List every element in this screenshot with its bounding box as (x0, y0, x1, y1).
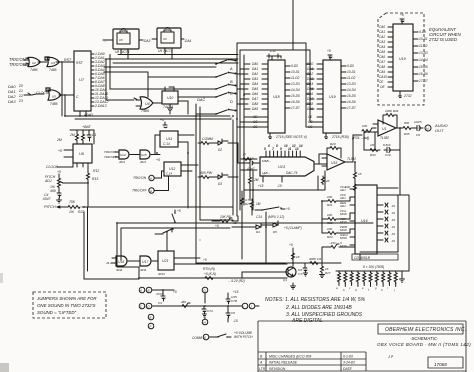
svg-text:.01: .01 (391, 225, 395, 229)
svg-text:14-D4: 14-D4 (419, 58, 428, 62)
label TRIG gates (104, 150, 117, 159)
svg-text:Σ0: Σ0 (18, 84, 23, 88)
svg-text:+5: +5 (203, 258, 207, 262)
svg-text:17-D7: 17-D7 (347, 106, 356, 110)
svg-text:2M: 2M (69, 133, 75, 137)
cap 6.8 (298, 263, 308, 276)
switch S2 (155, 209, 181, 234)
flip-flop U8 outer (113, 29, 139, 55)
wire U15 to U11 (151, 135, 160, 155)
svg-text:6.8pF: 6.8pF (383, 143, 391, 147)
svg-text:C9: C9 (416, 133, 420, 137)
note equivalent circuit (428, 27, 462, 42)
svg-text:Σ3: Σ3 (18, 99, 23, 103)
svg-text:U6: U6 (79, 151, 85, 156)
svg-text:C3: C3 (158, 301, 162, 305)
svg-text:CA5: CA5 (379, 50, 385, 54)
svg-text:DA8: DA8 (307, 102, 313, 106)
wire vertical pair mid (196, 104, 200, 220)
svg-text:TL082: TL082 (380, 136, 389, 140)
svg-text:R22: R22 (78, 210, 84, 214)
junction dots bus (235, 60, 237, 112)
wire left riser x110 (106, 55, 134, 101)
svg-text:+5: +5 (177, 209, 181, 213)
svg-text:MOD: MOD (340, 212, 347, 216)
svg-text:CA9: CA9 (379, 70, 385, 74)
wire top row y189 (242, 171, 325, 259)
wire 10k (212, 216, 238, 221)
svg-text:ADJ: ADJ (339, 196, 346, 200)
svg-text:10-D1: 10-D1 (347, 70, 356, 74)
wire vertical x266 (265, 212, 267, 263)
cap C9 out (413, 120, 423, 137)
svg-text:CLOCK: CLOCK (36, 91, 49, 95)
switch E (215, 109, 233, 121)
diode pair row2 (212, 173, 228, 186)
svg-text:400 PW: 400 PW (200, 171, 213, 175)
svg-text:17068: 17068 (434, 362, 447, 367)
svg-text:75K: 75K (69, 200, 76, 204)
wire U9 out (152, 38, 184, 40)
svg-text:OUT: OUT (435, 128, 444, 133)
pins U19 left (307, 62, 323, 129)
arrow pitch left (57, 206, 60, 208)
svg-text:Σ1: Σ1 (18, 89, 23, 93)
wire DAC to opamp (315, 154, 327, 164)
svg-text:R12: R12 (93, 169, 99, 173)
resistor col to U16 pin2 (322, 213, 350, 225)
cap under U10 (168, 104, 173, 114)
svg-text:OBERHEIM ELECTRONICS INC.: OBERHEIM ELECTRONICS INC. (385, 327, 466, 333)
connector E (148, 314, 154, 320)
switch A (215, 59, 233, 71)
svg-text:R13: R13 (92, 177, 98, 181)
capacitor top of U6 (87, 131, 96, 141)
svg-text:+5: +5 (400, 13, 404, 17)
svg-text:11: 11 (288, 147, 292, 151)
svg-text:7486: 7486 (30, 68, 38, 72)
wire right cluster (238, 163, 259, 215)
svg-text:U4: U4 (145, 102, 150, 106)
svg-text:11-D2: 11-D2 (347, 76, 356, 80)
svg-text:DA3: DA3 (8, 99, 16, 104)
svg-text:17-D7: 17-D7 (419, 79, 428, 83)
svg-text:CA7: CA7 (379, 60, 385, 64)
svg-text:.01: .01 (391, 218, 395, 222)
wire U2 out (38, 61, 47, 63)
wire long row2 (139, 277, 287, 279)
resistor 1M R33 (368, 143, 380, 157)
resistor R right2 (251, 199, 261, 210)
svg-text:R33: R33 (370, 153, 376, 157)
svg-text:NOTES: 1. ALL RESISTORS ARE 1: NOTES: 1. ALL RESISTORS ARE 1/4 W, 5% (265, 297, 366, 303)
feedback resistor opamp U15 (327, 142, 341, 158)
svg-text:+15: +15 (233, 290, 239, 294)
gate U16b (128, 256, 151, 272)
svg-text:3-24-83: 3-24-83 (343, 361, 355, 365)
svg-text:DAČ: DAČ (197, 97, 205, 102)
svg-text:A: A (139, 289, 142, 293)
svg-text:DA1: DA1 (252, 67, 258, 71)
svg-text:J P: J P (387, 355, 394, 359)
svg-text:10K R8: 10K R8 (220, 215, 231, 219)
svg-text:+5: +5 (58, 149, 62, 153)
svg-text:A: A (149, 177, 152, 181)
svg-text:TL082: TL082 (347, 157, 356, 161)
resistor R35 out (403, 121, 413, 136)
svg-text:9-D0: 9-D0 (291, 64, 298, 68)
resistor R22 pitch (68, 200, 84, 214)
connector pair C D (139, 303, 152, 309)
svg-text:DA8: DA8 (252, 102, 258, 106)
cap above U11 (160, 118, 167, 128)
block U21 (152, 251, 174, 276)
svg-text:300K 1%: 300K 1% (309, 257, 322, 261)
wire conn IJ (205, 293, 259, 322)
label DA0-DA3 column (8, 84, 23, 104)
wire bottom of U7 down (80, 111, 86, 116)
resistor row2 (198, 171, 213, 179)
svg-text:OBX VOICE BOARD - MW II (TOMS: OBX VOICE BOARD - MW II (TOMS 1&2) (377, 342, 471, 347)
svg-text:R23: R23 (327, 235, 333, 239)
svg-text:DATE: DATE (343, 367, 353, 371)
svg-text:CA1: CA1 (379, 30, 385, 34)
wire left vertical from U3 area down (62, 62, 65, 116)
opamp U15 (322, 154, 356, 170)
dashed equivalent box (378, 13, 424, 105)
svg-text:CA8: CA8 (379, 65, 385, 69)
pins U16 left labels (339, 185, 355, 248)
title schematic (377, 336, 471, 347)
cap C7A (202, 306, 213, 317)
svg-text:DA3: DA3 (307, 77, 313, 81)
resistor 10K top right (215, 215, 232, 228)
svg-text:MISC CHANGES (ECO 308: MISC CHANGES (ECO 308 (269, 355, 311, 359)
feedback resistor U1 (383, 109, 399, 128)
wire pitch verticals down (84, 207, 139, 279)
label C14 MPU (256, 215, 284, 219)
svg-text:R22: R22 (327, 221, 333, 225)
wire conn AB right (152, 290, 174, 293)
svg-text:2732: 2732 (403, 94, 412, 98)
svg-text:C,14: C,14 (163, 142, 170, 146)
svg-text:RTN (N): RTN (N) (203, 267, 215, 271)
switch B (215, 72, 233, 84)
cap top of U19 (327, 49, 332, 60)
connector AUDIO OUT (425, 125, 431, 131)
cap top of U18 (267, 49, 281, 60)
svg-text:5: 5 (264, 147, 266, 151)
wire DA bus to clock gate (24, 93, 44, 95)
switch D (215, 92, 233, 104)
gate U2 (28, 57, 41, 72)
svg-text:8: 8 (276, 144, 278, 148)
svg-text:9: 9 (280, 147, 282, 151)
opamp U1 (373, 120, 403, 140)
svg-text:2M: 2M (253, 178, 259, 182)
svg-text:Σ2: Σ2 (18, 94, 23, 98)
svg-text:U15: U15 (331, 161, 337, 165)
svg-text:15-D5: 15-D5 (347, 94, 356, 98)
svg-text:ADJ: ADJ (339, 188, 346, 192)
label AUDIO OUT (434, 123, 448, 133)
resistor 2M right (249, 175, 259, 186)
svg-text:16-D6: 16-D6 (347, 100, 356, 104)
wire U8 U9 drops (121, 48, 172, 59)
svg-text:U19: U19 (399, 57, 406, 61)
wire col (354, 162, 356, 182)
connector pair A B (139, 287, 152, 293)
svg-text:(R31→adj): (R31→adj) (352, 136, 369, 140)
svg-text:-DA3: -DA3 (143, 39, 150, 43)
svg-text:+5: +5 (215, 224, 219, 228)
pins U7 right with DA labels (91, 52, 108, 108)
svg-text:TRIG'ON: TRIG'ON (133, 176, 147, 180)
resistor col right (320, 263, 331, 278)
svg-text:15-D5: 15-D5 (291, 94, 300, 98)
svg-text:DA7: DA7 (307, 97, 313, 101)
svg-text:F: F (150, 325, 152, 329)
svg-text:U12: U12 (169, 167, 175, 171)
resistor into U1 (362, 124, 376, 133)
svg-text:SOUND = "LIFTED": SOUND = "LIFTED" (37, 310, 77, 315)
svg-text:U7: U7 (79, 77, 85, 82)
cap C10 (383, 143, 392, 157)
svg-text:(I): (I) (243, 152, 246, 156)
svg-text:CA6: CA6 (379, 55, 385, 59)
svg-text:DA5: DA5 (252, 87, 258, 91)
svg-text:-15: -15 (277, 184, 282, 188)
svg-text:10-D1: 10-D1 (419, 37, 428, 41)
connector G (202, 287, 208, 293)
connector pair I J (242, 303, 255, 309)
resistor DAC ref (243, 152, 251, 161)
pins U18 left (252, 62, 268, 129)
svg-text:RST: RST (76, 61, 84, 65)
gate U5 clock (46, 88, 61, 106)
switch MPU (255, 207, 290, 211)
svg-text:DA4: DA4 (252, 82, 258, 86)
wire CD row (152, 305, 242, 307)
EPROM U18 (268, 60, 285, 133)
svg-text:U21: U21 (162, 259, 168, 263)
chip U16 VCF (355, 185, 377, 254)
cap top equiv (400, 13, 404, 24)
svg-text:4011: 4011 (140, 160, 146, 164)
svg-text:U13: U13 (278, 164, 286, 169)
cap C4 (42, 190, 61, 201)
wire top vertical feed (292, 0, 294, 43)
wire big box lower (117, 223, 373, 267)
svg-text:DA1: DA1 (307, 67, 313, 71)
wire U21 out (174, 258, 287, 264)
svg-text:CA4: CA4 (379, 45, 385, 49)
resistor 47K R25 (241, 197, 253, 206)
svg-text:MOD: MOD (340, 236, 347, 240)
svg-text:U5: U5 (52, 95, 56, 99)
connector COMM (192, 334, 209, 340)
pins U20 right (413, 30, 428, 83)
svg-text:B: B (230, 79, 233, 84)
dashed jumper note box (33, 292, 106, 318)
svg-text:8 × 10K (7805): 8 × 10K (7805) (363, 265, 384, 269)
node C (64, 94, 66, 96)
svg-text:U16: U16 (118, 260, 124, 264)
counter U7 (74, 51, 93, 117)
svg-text:-SCHEMATIC-: -SCHEMATIC- (410, 336, 439, 341)
svg-text:U1: U1 (382, 127, 386, 131)
svg-text:PITCH: PITCH (44, 204, 56, 209)
title block frame (258, 321, 466, 372)
cap C7B (226, 295, 237, 304)
svg-text:DA7: DA7 (252, 97, 258, 101)
svg-text:CA10: CA10 (379, 75, 387, 79)
svg-text:A: A (149, 189, 152, 193)
svg-text:LTR: LTR (259, 367, 266, 371)
svg-text:2732 IS USED: 2732 IS USED (428, 37, 457, 42)
wire U4 to U10 (153, 97, 196, 114)
switch C (215, 84, 233, 96)
svg-text:U10: U10 (167, 96, 173, 100)
ground pitch (57, 198, 62, 203)
wire Q1 collector (292, 248, 294, 286)
cap C3 (156, 292, 165, 305)
svg-text:14: 14 (299, 144, 303, 148)
switch volume (209, 334, 231, 338)
revision table (258, 352, 466, 371)
svg-text:4013: 4013 (158, 272, 165, 276)
wire DAC underside (244, 160, 282, 193)
pins U16 right caps (377, 203, 395, 243)
gate U15 (130, 150, 150, 164)
svg-text:MOD: MOD (340, 228, 347, 232)
svg-text:7486: 7486 (141, 109, 149, 113)
svg-text:DA3: DA3 (252, 77, 258, 81)
gate U4 (134, 97, 153, 113)
wire TRIG to U12 (155, 165, 199, 191)
wire opamp out right (353, 135, 362, 162)
svg-text:2716 (SEE NOTE 4): 2716 (SEE NOTE 4) (275, 135, 307, 139)
svg-text:U19: U19 (329, 95, 336, 99)
flip-flop U9 outer (157, 28, 181, 54)
wire row y263 (287, 262, 341, 264)
svg-text:DA0: DA0 (252, 62, 258, 66)
wire row1 to right (228, 143, 238, 163)
svg-text:100K R34: 100K R34 (385, 109, 399, 113)
svg-text:.01: .01 (391, 204, 395, 208)
svg-text:INITIAL RELEASE: INITIAL RELEASE (269, 361, 298, 365)
svg-text:7486: 7486 (50, 102, 58, 106)
ladder bottom labels (336, 286, 395, 292)
svg-text:480: 480 (181, 300, 186, 304)
connector TRIG'ON A1 (133, 175, 154, 180)
svg-text:+5: +5 (289, 243, 293, 247)
wire pitch wiper (65, 180, 88, 207)
svg-text:R29: R29 (330, 142, 336, 146)
svg-text:J4 A: J4 A (106, 261, 112, 265)
svg-text:B: B (148, 289, 150, 293)
resistor ladder top bus (336, 271, 405, 282)
node at RST (61, 61, 63, 63)
EPROM U19 (323, 60, 341, 133)
svg-text:13-D3: 13-D3 (347, 82, 356, 86)
resistor col2 (345, 182, 357, 193)
resistor on row2 (203, 272, 216, 280)
wire col feed vertical (321, 201, 323, 233)
svg-text:CA2: CA2 (379, 35, 385, 39)
wire U3 out to U7 RST (56, 61, 74, 63)
ground Q1 (291, 286, 296, 289)
svg-text:←5.2V (R2): ←5.2V (R2) (228, 279, 245, 283)
svg-text:C10: C10 (385, 153, 391, 157)
gate U3 (45, 57, 60, 72)
wire clock out U6 (57, 163, 88, 171)
svg-text:DA9: DA9 (307, 107, 313, 111)
transistor Q1 (283, 267, 296, 282)
svg-text:CA3: CA3 (379, 40, 385, 44)
gate U16a (112, 256, 127, 272)
svg-text:CD-4051B: CD-4051B (354, 256, 371, 260)
wire to ladder (402, 195, 409, 271)
svg-text:LSB→: LSB→ (262, 171, 271, 175)
wire U5 out to U7 C (59, 94, 74, 96)
svg-text:600: 600 (404, 121, 409, 125)
svg-text:C7B: C7B (231, 299, 237, 303)
connector F (148, 323, 154, 329)
wire bus comb to U19 labels (306, 64, 314, 109)
svg-text:DA2: DA2 (252, 72, 258, 76)
svg-text:COMM: COMM (192, 336, 202, 340)
wire U11 outs (178, 135, 194, 208)
svg-text:D: D (230, 99, 233, 104)
wire U6 left +5 (64, 150, 73, 157)
svg-text:17-D7: 17-D7 (291, 106, 300, 110)
resistor R top of U6 (69, 131, 79, 144)
svg-text:C8: C8 (231, 311, 235, 315)
svg-text:DA2: DA2 (307, 72, 313, 76)
wire BAT rail (70, 130, 94, 144)
resistor 480 (180, 300, 190, 308)
svg-text:2716 (R30): 2716 (R30) (331, 135, 349, 139)
resistor R32 (292, 252, 301, 261)
svg-text:+5: +5 (57, 170, 61, 174)
svg-text:U14: U14 (120, 153, 126, 157)
wire switch outputs to bus (229, 60, 236, 111)
svg-text:U18: U18 (273, 95, 280, 99)
svg-text:13-D3: 13-D3 (291, 82, 300, 86)
svg-text:U8: U8 (119, 38, 123, 42)
svg-text:TRIG'OFF: TRIG'OFF (132, 189, 148, 193)
svg-text:+5 (CLAMP): +5 (CLAMP) (284, 226, 302, 230)
bottom left gray edge (0, 363, 9, 372)
svg-text:C,14: C,14 (166, 172, 172, 176)
svg-text:U8 74C74: U8 74C74 (115, 50, 130, 54)
svg-text:RST: RST (64, 58, 72, 62)
notes text (265, 297, 366, 324)
svg-text:1M: 1M (256, 202, 261, 206)
svg-text:A2: A2 (232, 221, 237, 225)
svg-text:DA6: DA6 (252, 92, 258, 96)
svg-text:9-D0: 9-D0 (419, 30, 426, 34)
svg-text:+15: +15 (258, 184, 264, 188)
svg-text:D2: D2 (218, 148, 222, 152)
svg-text:ONE SOUND IN TWO 2732'S: ONE SOUND IN TWO 2732'S (37, 303, 95, 308)
wire left entries (196, 220, 286, 263)
wire top bus box around U18 (237, 43, 317, 216)
resistor 10K row (308, 257, 322, 265)
wire DA2 to U8 (103, 39, 143, 41)
wire DAC left input (241, 159, 257, 170)
